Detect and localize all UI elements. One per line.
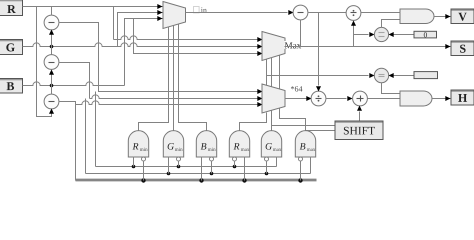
lookup box SHIFT: [335, 121, 383, 140]
rail taps: [141, 161, 302, 183]
select line s2 mux2 to mux3: [271, 58, 273, 87]
junction B to subtractors: [50, 84, 54, 88]
wire SHIFT up into A1: [357, 106, 362, 121]
output port H: [451, 90, 474, 105]
divider D1: [346, 6, 361, 21]
select line mux3 s1 to Rmax: [240, 113, 267, 132]
subtractor M1: [293, 5, 308, 20]
select line mux1 s1 to Rmin: [139, 27, 169, 132]
pins Rmin: [134, 157, 146, 162]
constant box 0: [414, 31, 437, 38]
subtractor U2: [44, 55, 59, 70]
branch to comparator EQ1: [354, 32, 375, 37]
clock rail: [76, 179, 317, 182]
pins Bmax: [299, 157, 311, 162]
wire mux3 output to divider D2: [285, 96, 312, 101]
bus1 taps: [132, 161, 237, 169]
wire G into U2 top: [51, 47, 53, 55]
bus vertical 2: [85, 99, 87, 174]
select line mux1 s3 to Bmin: [179, 25, 207, 132]
wire U2 output to mux3 input 2: [59, 63, 263, 102]
wire Max up into M1: [300, 20, 302, 47]
latch Rmax: [229, 131, 249, 157]
bus line 1: [96, 157, 277, 167]
pins Gmin: [169, 157, 181, 162]
wire select to EQ2: [267, 73, 375, 78]
wire B up to mux1 input 3: [125, 16, 163, 86]
latch Bmin: [196, 131, 216, 157]
pins Bmin: [202, 157, 214, 162]
select line mux3 s2 to Gmax: [271, 111, 273, 132]
wire U3 output to mux3 input 3: [59, 101, 263, 107]
bus2 taps: [167, 161, 269, 176]
wire G row: [23, 43, 262, 47]
wire Min output: [186, 10, 294, 15]
wire U1 output to mux3 input 1: [59, 23, 263, 95]
wire Max up into D1: [351, 21, 356, 47]
mux U5 maximum selector: [262, 32, 285, 61]
subtractor U1: [44, 15, 59, 30]
adder A1: [353, 91, 368, 106]
subtractor U3: [44, 94, 59, 109]
mux U4 minimum selector: [163, 2, 186, 29]
wire Max output to S port: [285, 44, 451, 49]
register H latch: [400, 91, 432, 106]
bus vertical 1: [75, 105, 77, 181]
input port B: [0, 79, 23, 94]
wire R input arrow mux1: [157, 4, 162, 9]
wire B to mux2 input 3: [134, 19, 263, 57]
wire H register to H port: [433, 96, 451, 101]
select line s1 mux2 to mux3: [266, 60, 268, 86]
pins Rmax: [233, 157, 245, 162]
wire EQ2 down to H register: [382, 83, 401, 94]
wire zero box to EQ1: [389, 32, 415, 37]
wire R row: [23, 6, 163, 8]
wire D1 to V register: [361, 12, 401, 14]
wire M1 to divider D1: [308, 12, 347, 14]
comparator EQ2: [374, 68, 388, 82]
wire B row: [23, 82, 125, 86]
select line mux3 s3 to Bmax: [280, 109, 306, 132]
output port V: [451, 9, 474, 24]
wire V register to V port: [435, 14, 451, 19]
label x64: [291, 86, 302, 91]
wire R down to mux2 input 1: [114, 7, 263, 43]
wire B into U3 top: [51, 86, 53, 95]
register V latch: [400, 9, 434, 24]
wire G arrow mux2 input 2: [257, 44, 262, 49]
label Min: [194, 7, 207, 13]
wire Bmax branch to SHIFT: [306, 130, 335, 132]
divider D2: [311, 91, 326, 106]
wire R into U1 top: [51, 7, 53, 16]
latch Bmax: [295, 131, 315, 157]
wire R loop into U3 bottom: [37, 7, 55, 117]
latch Rmin: [128, 131, 148, 157]
input port G: [0, 40, 23, 55]
pins Gmax: [265, 157, 277, 162]
wire B into U2 bottom: [49, 70, 54, 86]
wire D2 to adder A1: [326, 96, 353, 101]
constant box blank: [414, 72, 438, 79]
junction G to subtractors: [50, 45, 54, 49]
wire A1 to H register: [368, 98, 401, 100]
wire EQ1 up to V register: [382, 20, 401, 28]
comparator EQ1: [374, 27, 388, 41]
latch Gmax: [261, 131, 281, 157]
wire G up to mux1 input 2: [118, 10, 163, 47]
output port S: [451, 41, 474, 56]
select line s3 mux2 to mux3: [279, 56, 281, 89]
bus line 2: [86, 157, 311, 174]
mux U6 difference selector: [262, 84, 285, 113]
wire empty box to EQ2: [389, 73, 415, 78]
select line mux1 s2 to Gmin: [173, 26, 175, 132]
wire MaxMin down into D2: [316, 13, 321, 92]
wire G into U1 bottom: [49, 30, 54, 47]
input port R: [0, 0, 23, 16]
latch Gmin: [163, 131, 183, 157]
bus vertical 3: [95, 92, 97, 167]
label Max: [285, 41, 302, 49]
wire Gmax branch to SHIFT: [272, 125, 335, 127]
